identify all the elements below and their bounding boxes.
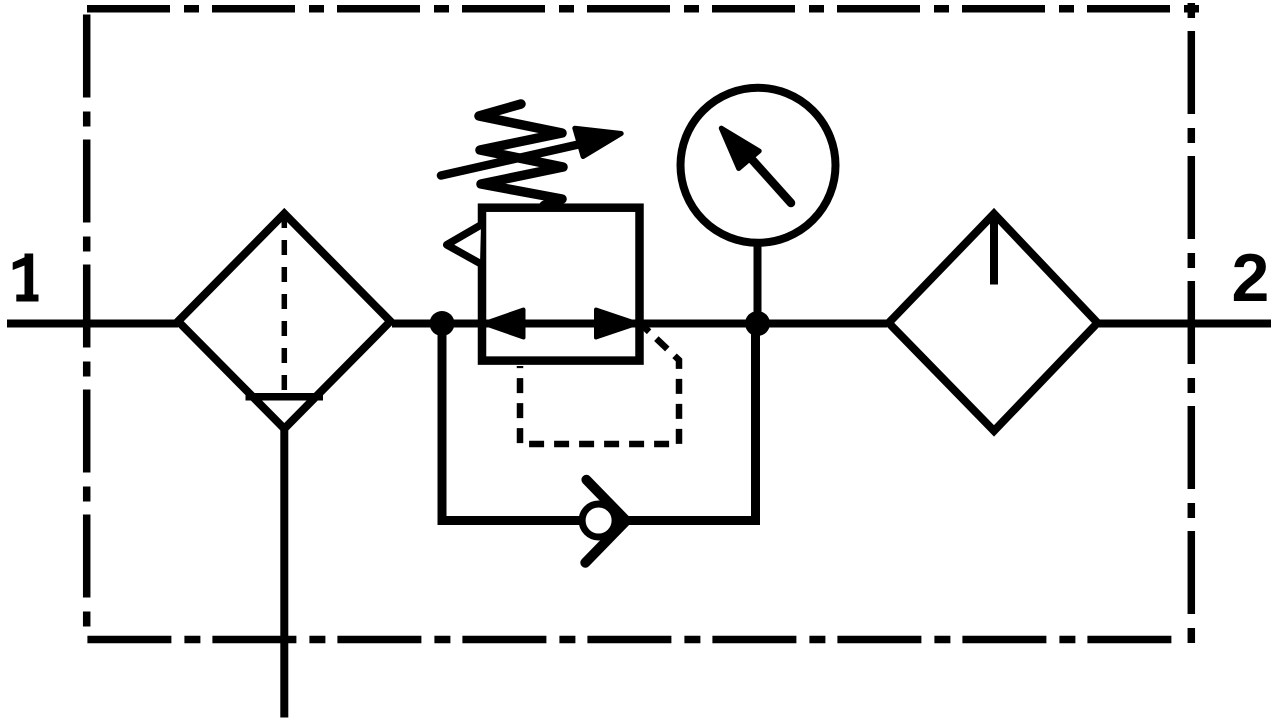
condensate drain line [280,428,288,718]
enclosure border bottom (dash-dot frame) [87,636,1175,644]
regulator flow arrowhead right [596,310,638,338]
regulator relief vent triangle [447,225,481,264]
enclosure border top (dash-dot frame) [87,5,1199,13]
pressure gauge dial (circle) [681,88,836,243]
check valve ball [582,504,615,537]
wire: inlet line from port 1 to filter [7,320,178,328]
regulator body (square) [482,208,640,361]
lubricator diamond body [889,214,1098,431]
regulator adjustment arrow shaft [441,143,585,176]
port 1 label [13,254,39,302]
pressure gauge stem [754,242,762,324]
port 2 label [1232,240,1270,316]
filter element (dashed center line) [282,213,288,394]
pressure gauge needle shaft [752,160,791,204]
enclosure border left (dash-dot frame) [83,15,91,634]
lubricator oil drip line [990,216,998,285]
bypass line (left drop, bottom run, right rise) [442,328,756,521]
filter with water separator: diamond body [178,214,390,429]
water separator line [246,393,324,401]
regulator adjustment arrowhead [575,128,621,156]
enclosure border right (dash-dot frame) [1188,3,1196,643]
check valve seat [585,480,626,563]
node: junction dot left [430,311,455,336]
pressure gauge needle arrowhead [721,128,759,168]
wire: filter outlet to regulator [392,320,486,328]
svg-text:2: 2 [1232,240,1270,316]
regulator flow path shaft [486,320,636,328]
regulator pilot line (dashed) [520,327,679,444]
regulator adjustment spring (zigzag) [479,104,563,206]
wire: regulator outlet to gauge junction [636,320,887,328]
wire: lubricator to port 2 outlet [1099,320,1271,328]
regulator flow arrowhead left [484,310,524,338]
node: junction dot right [745,311,770,336]
